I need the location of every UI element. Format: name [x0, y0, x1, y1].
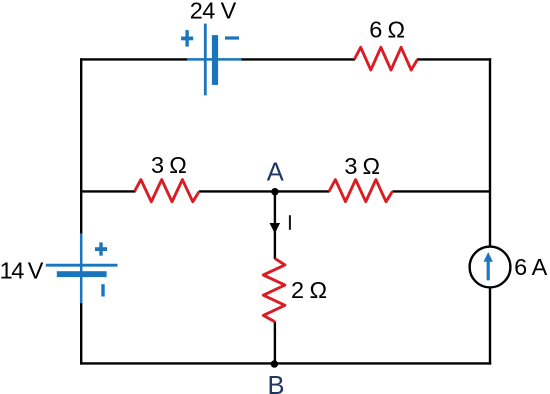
battery 14 V (left side, plus up) — [46, 233, 118, 303]
node B junction dot — [271, 360, 278, 367]
battery 24 V (top) — [187, 24, 242, 96]
wire right vertical lower (6A source to bottom-right corner) — [489, 286, 491, 365]
svg-text:24 V: 24 V — [190, 0, 237, 24]
label 3 ohm right — [344, 153, 379, 179]
wire left vertical upper (top-left corner to 14V battery) — [80, 58, 82, 233]
svg-text:6 A: 6 A — [514, 254, 548, 280]
resistor 3 ohm (middle left) — [135, 180, 200, 202]
battery 24 V minus sign — [225, 36, 239, 39]
label I — [289, 215, 291, 230]
wire middle horizontal left (left wire to first 3 ohm resistor) — [81, 190, 135, 192]
svg-text:6 Ω: 6 Ω — [369, 17, 404, 43]
resistor 2 ohm (vertical middle branch) — [263, 259, 285, 322]
battery 14 V plus sign — [95, 242, 107, 255]
wire left vertical lower (14V battery to bottom-left corner) — [80, 303, 82, 365]
wire top horizontal (24V battery to 6 ohm resistor) — [242, 58, 356, 60]
label 3 ohm left — [151, 152, 186, 178]
wire bottom horizontal — [80, 362, 491, 364]
current arrow I (downward on middle branch) — [270, 223, 281, 234]
battery 24 V plus sign — [181, 30, 193, 46]
current source 6 A (right side) — [470, 247, 511, 288]
wire top horizontal (6 ohm resistor to top-right corner) — [417, 58, 491, 60]
svg-text:3 Ω: 3 Ω — [151, 152, 186, 178]
label 2 ohm — [291, 277, 327, 303]
wire right vertical upper (top-right corner to 6A source) — [489, 58, 491, 248]
label 6 ohm — [369, 17, 404, 43]
svg-text:2 Ω: 2 Ω — [291, 277, 327, 303]
label node A — [267, 159, 284, 187]
svg-text:B: B — [267, 372, 284, 394]
node A junction dot — [271, 188, 278, 195]
svg-text:3 Ω: 3 Ω — [344, 153, 379, 179]
svg-text:A: A — [267, 159, 284, 187]
label 14 V — [0, 258, 44, 284]
wire middle horizontal center (first 3 ohm resistor to second 3 ohm resistor through node A) — [199, 190, 330, 192]
svg-text:14 V: 14 V — [0, 258, 44, 284]
wire middle vertical upper (node A to 2 ohm resistor) — [274, 191, 276, 259]
label 6 A — [514, 254, 548, 280]
wire middle horizontal right (second 3 ohm resistor to right wire) — [392, 190, 490, 192]
resistor 6 ohm (top) — [354, 47, 417, 70]
battery 14 V minus sign (vertical) — [101, 284, 104, 296]
wire top-left horizontal (left corner to 24V battery) — [80, 58, 188, 60]
resistor 3 ohm (middle right) — [329, 180, 392, 202]
wire middle vertical lower (2 ohm resistor to node B) — [274, 322, 276, 364]
label node B — [267, 372, 284, 394]
label 24 V — [190, 0, 237, 24]
